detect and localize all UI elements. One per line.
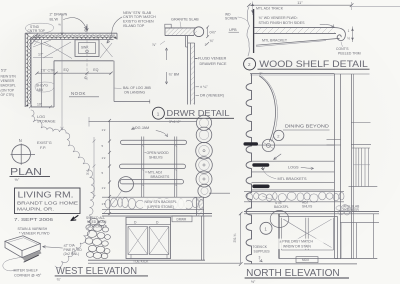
north elev: dark shelf end bars <box>244 142 270 188</box>
west elev: wood pile <box>85 218 110 258</box>
svg-text:ABV: ABV <box>37 88 45 92</box>
svg-text:DINING BEYOND: DINING BEYOND <box>285 124 329 129</box>
note: TOEKICK SUPPLIES <box>253 245 271 262</box>
note: +- 1/4 <box>196 85 209 89</box>
svg-text:₵: ₵ <box>84 76 87 80</box>
note: DR (VENEER) <box>196 94 224 98</box>
west elev: leader to note <box>104 191 122 214</box>
west elev: outer dim <box>86 137 95 198</box>
svg-text:TOEKICK: TOEKICK <box>253 245 268 249</box>
note: LOG STORAGE <box>37 115 56 124</box>
svg-text:BAL OF LOG JMB: BAL OF LOG JMB <box>123 86 151 90</box>
note: stain varnish <box>18 227 51 236</box>
svg-text:± PINE DRS? MATCH: ± PINE DRS? MATCH <box>280 240 314 244</box>
svg-text:BL'W: BL'W <box>50 17 59 21</box>
shelf detail: shelf slab <box>254 28 336 34</box>
north elev: callout circle 2 <box>274 130 284 140</box>
west elev: stone backsplash band <box>102 197 204 209</box>
svg-text:EQ: EQ <box>93 68 98 72</box>
drwr detail: right dims <box>205 26 217 47</box>
svg-text:BRACKETS: BRACKETS <box>151 175 171 179</box>
west elev: counter <box>102 214 212 216</box>
svg-text:¾" WD VENEER PLWD:: ¾" WD VENEER PLWD: <box>259 16 298 20</box>
note: WTH SLAB COUNTER <box>343 204 359 212</box>
west elev: right verticals <box>202 216 204 260</box>
drwr detail: left dim 3/4 BM <box>152 41 179 84</box>
svg-text:EXIST'G KITCHEN: EXIST'G KITCHEN <box>123 20 154 24</box>
svg-text:½": ½" <box>15 177 20 182</box>
svg-text:3'0-¾: 3'0-¾ <box>233 233 237 243</box>
note: pine drs match <box>279 239 324 250</box>
svg-text:¾" BM: ¾" BM <box>169 73 180 77</box>
svg-text:SUPPLIES: SUPPLIES <box>254 250 271 254</box>
note: STND CNTR TOP bubble <box>25 23 53 33</box>
svg-text:WNDW DR STAIN: WNDW DR STAIN <box>283 244 311 248</box>
svg-text:N: N <box>19 138 22 143</box>
svg-text:WEST ELEVATION: WEST ELEVATION <box>56 266 137 277</box>
svg-text:SHELVS: SHELVS <box>149 155 163 159</box>
north elev: right lower structure <box>335 214 379 259</box>
svg-text:¾": ¾" <box>210 39 215 43</box>
north elev: arch curve <box>260 76 278 142</box>
svg-text:CORNER @ 45°: CORNER @ 45° <box>14 273 42 277</box>
svg-text:STAIN & VARNISH: STAIN & VARNISH <box>18 227 48 231</box>
svg-text:10": 10" <box>37 102 43 106</box>
note: NOOK <box>69 91 99 97</box>
note: MTL ADJ BRACKETS <box>145 170 170 179</box>
svg-text:⅞": ⅞" <box>152 43 157 47</box>
heading: WEST ELEVATION <box>55 266 148 282</box>
svg-text:1'8: 1'8 <box>102 202 106 206</box>
svg-text:0½": 0½" <box>210 31 217 35</box>
svg-text:NEW STN: NEW STN <box>1 75 17 79</box>
plan: dimension line 1-6 CTR / EQ EQ <box>35 68 112 75</box>
svg-text:LOGS: LOGS <box>288 166 299 170</box>
svg-text:(2x2 RAIL): (2x2 RAIL) <box>64 252 80 256</box>
svg-text:EXIST'G: EXIST'G <box>37 141 52 145</box>
west elev: shelf tracks <box>142 137 177 198</box>
svg-text:½": ½" <box>251 280 256 284</box>
note: STN BACKSPL / ADJ <box>263 196 313 209</box>
plan: landing outline <box>114 61 150 104</box>
svg-text:(ON TOP: (ON TOP <box>1 88 15 92</box>
svg-text:1'2: 1'2 <box>102 128 106 132</box>
note: LOGS <box>288 166 314 170</box>
north elev: counter <box>244 212 379 214</box>
svg-text:3'-6: 3'-6 <box>86 170 90 175</box>
north elev: cabinet with X doors <box>279 214 338 259</box>
shelf detail: log wall edge <box>247 7 254 56</box>
svg-text:± ¼": ± ¼" <box>200 85 208 89</box>
west elev: left dim string <box>102 119 112 215</box>
svg-text:STORAGE: STORAGE <box>37 119 56 123</box>
north elev: base line <box>244 263 357 265</box>
svg-text:CNTR TOP/ MATCH: CNTR TOP/ MATCH <box>123 15 156 19</box>
heading: WOOD SHELF DETAIL <box>244 58 370 76</box>
svg-text:(LIPPED STONE): (LIPPED STONE) <box>147 205 174 209</box>
title block <box>14 188 80 223</box>
svg-text:BRANDT LOG HOME: BRANDT LOG HOME <box>17 201 79 207</box>
svg-text:½: ½ <box>347 37 350 41</box>
note: flusd veneer drawer face <box>195 57 227 66</box>
svg-text:FLUSD VENEER: FLUSD VENEER <box>198 57 227 61</box>
north arrow <box>11 138 36 165</box>
plan: centerline <box>84 27 87 81</box>
svg-text:DRWR: DRWR <box>177 217 188 221</box>
svg-text:ON LANDING: ON LANDING <box>124 90 145 94</box>
west elev: callout circle <box>118 177 133 192</box>
svg-text:VENEER: VENEER <box>1 79 15 83</box>
shelf detail: small top dim <box>251 2 254 16</box>
svg-text:1: 1 <box>157 111 160 116</box>
north elev: callout circle 1 <box>260 222 272 234</box>
north elev: bracket knob circle <box>262 139 281 159</box>
svg-text:3: 3 <box>259 256 261 260</box>
heading: DRWR DETAIL <box>152 107 234 124</box>
svg-text:17": 17" <box>38 53 44 57</box>
3d shelf sketch <box>3 236 42 271</box>
note: new stn slab cntr top <box>107 11 156 43</box>
svg-text:OPEN WOOD: OPEN WOOD <box>147 151 170 155</box>
svg-text:MAUPIN, OR.: MAUPIN, OR. <box>17 207 54 213</box>
svg-text:PLAN: PLAN <box>10 166 42 178</box>
north elev: log course lines <box>252 145 335 190</box>
svg-text:F.P.: F.P. <box>40 146 46 150</box>
plan: top wall band <box>30 33 117 39</box>
note: swirl need beam <box>86 216 108 229</box>
plan: left wall band <box>25 33 31 107</box>
svg-text:CONT'S: CONT'S <box>336 47 349 51</box>
heading: PLAN <box>10 166 51 182</box>
note: WD SCREW <box>225 12 247 21</box>
bold leader arrow to sketch <box>71 216 78 221</box>
north elev: right post <box>327 74 370 259</box>
west elev: post below logs <box>197 197 204 216</box>
svg-text:¾": ¾" <box>57 278 62 282</box>
svg-text:1'2: 1'2 <box>102 186 106 190</box>
svg-text:3"=1'-0": 3"=1'-0" <box>169 120 181 124</box>
svg-text:11": 11" <box>297 1 303 5</box>
svg-text:SINK: SINK <box>81 46 89 50</box>
drwr detail: cabinet face <box>186 36 195 105</box>
shelf detail: bracket <box>256 38 340 46</box>
svg-text:SCREW: SCREW <box>225 16 238 20</box>
svg-text:MTL ADJ TRACK: MTL ADJ TRACK <box>256 6 284 10</box>
note: UPB <box>229 28 240 32</box>
shelf detail: peeled trim hook <box>334 28 345 41</box>
west elev: bracket ticks under shelves <box>141 145 177 187</box>
plan: counter hatch <box>32 34 113 59</box>
note: pine rail <box>43 244 83 257</box>
note: miter shelf corner <box>14 269 42 278</box>
west elev: DRWR label box <box>172 216 192 222</box>
note: MTL BRACKETS <box>264 171 307 182</box>
svg-text:GRANITE SLAB: GRANITE SLAB <box>171 18 199 22</box>
svg-text:1'6" CTR: 1'6" CTR <box>41 68 56 72</box>
note: OPEN WOOD SHELVS <box>145 151 170 160</box>
plan: 10in dim bottom <box>29 102 52 108</box>
svg-text:LIVING RM.: LIVING RM. <box>18 191 74 200</box>
note: 2in drawn blw + leader <box>50 12 89 31</box>
drwr detail: granite slab label <box>171 18 199 28</box>
north elev: corner stones <box>336 205 353 215</box>
north elev: left dim 3-0-3/4 <box>233 212 243 266</box>
svg-text:EQ: EQ <box>64 68 69 72</box>
svg-text:WOOD SHELF DETAIL: WOOD SHELF DETAIL <box>259 59 368 70</box>
svg-text:DRAWER FACE: DRAWER FACE <box>200 62 227 66</box>
note: NEW STN VENEER BACKSPL <box>1 75 17 97</box>
svg-text:TO SCREEN: TO SCREEN <box>88 225 108 229</box>
svg-text:DRWR DETAIL: DRWR DETAIL <box>167 108 230 118</box>
svg-text:NORTH ELEVATION: NORTH ELEVATION <box>246 268 340 279</box>
svg-text:ISLAND TOP: ISLAND TOP <box>123 24 145 28</box>
shelf detail: right dim 1.5 <box>347 27 354 43</box>
note: conts peeled trim <box>336 42 361 56</box>
svg-text:SHLVS: SHLVS <box>302 205 312 209</box>
svg-text:MTL ADJ: MTL ADJ <box>148 170 163 174</box>
svg-text:* VENEER PLYW'D: * VENEER PLYW'D <box>19 232 50 236</box>
svg-text:2" DRAWN: 2" DRAWN <box>50 12 68 16</box>
note: BAL OF LOG JMB ON LANDING <box>114 86 152 94</box>
west elev: line right of logs <box>209 192 230 194</box>
svg-text:OF CTR): OF CTR) <box>1 93 14 97</box>
svg-text:NEW STN BACKSPL: NEW STN BACKSPL <box>145 200 177 204</box>
note: plywood note <box>259 16 335 27</box>
svg-text:DR (VENEER): DR (VENEER) <box>200 94 224 98</box>
svg-text:MDX: MDX <box>302 258 310 262</box>
note: EXISTG FP <box>37 141 52 150</box>
north elev: stone band <box>244 191 344 202</box>
north elev: nook head lines <box>250 74 334 75</box>
note: new stn backspl lipped stone <box>143 199 186 209</box>
svg-text:LOG: LOG <box>37 115 45 119</box>
note: SHLVG ABV <box>35 82 54 92</box>
west elev: top line <box>89 117 197 127</box>
svg-text:BACKSPL: BACKSPL <box>274 205 289 209</box>
west elev: cabinet <box>126 217 171 258</box>
svg-text:1: 1 <box>348 29 350 33</box>
svg-text:MTL BRACKET: MTL BRACKET <box>262 38 288 42</box>
note: LOG JAM <box>132 126 168 137</box>
north elev: left wavy log edge <box>246 74 251 263</box>
svg-text:7. SEPT 2006: 7. SEPT 2006 <box>14 217 53 223</box>
plan: long leader line <box>58 14 63 130</box>
svg-text:PEELED TRIM: PEELED TRIM <box>338 52 361 56</box>
shelf detail: 11in dim <box>247 1 400 10</box>
svg-text:BACKSPL: BACKSPL <box>1 84 16 88</box>
north elev: drawer callout ellipse <box>270 211 289 228</box>
svg-text:NOOK: NOOK <box>71 91 86 96</box>
west elev: floor lines <box>88 260 240 263</box>
svg-text:UPB: UPB <box>229 28 237 32</box>
svg-text:SWRL'D ALL: SWRL'D ALL <box>86 216 105 220</box>
note: DINING BEYOND <box>283 124 330 130</box>
plan: tear cloud line <box>31 110 95 268</box>
svg-text:NEW 'STN' SLAB: NEW 'STN' SLAB <box>123 11 152 15</box>
svg-text:MITER SHELF: MITER SHELF <box>14 269 39 273</box>
svg-text:2: 2 <box>248 62 251 67</box>
svg-text:5'3": 5'3" <box>1 69 8 73</box>
plan: 17in dim <box>33 53 53 58</box>
heading: NORTH ELEVATION <box>245 268 349 284</box>
plan: counter edges <box>31 40 114 108</box>
north elev: plinth box <box>296 257 318 263</box>
drwr detail: slab section <box>165 24 204 36</box>
svg-text:SHLV'G: SHLV'G <box>36 84 48 88</box>
plan: sink <box>75 40 99 57</box>
west elev: shelf bars <box>120 140 187 184</box>
north elev: railing <box>349 123 378 187</box>
west elev: log wall circles <box>196 115 213 197</box>
svg-text:MTL BRACKETS: MTL BRACKETS <box>278 177 307 181</box>
svg-text:1'2: 1'2 <box>102 156 106 160</box>
svg-text:STN'D FINISH BOTH SIDES: STN'D FINISH BOTH SIDES <box>259 21 306 25</box>
